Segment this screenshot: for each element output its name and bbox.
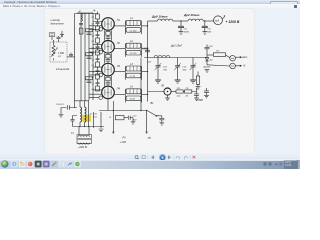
test pin Р4	[112, 111, 126, 140]
wire HT to filter	[148, 20, 158, 22]
ground	[99, 129, 104, 132]
capacitor C15 2000	[178, 21, 189, 33]
ground	[202, 32, 207, 35]
resistor R2	[96, 14, 100, 19]
wire to HT bus	[142, 93, 148, 95]
shield box (dashed)	[50, 42, 67, 62]
capacitor C2	[96, 19, 100, 26]
cathode resistor R21	[106, 54, 110, 58]
trimmer capacitor C18 150	[155, 58, 168, 80]
start orb	[1, 161, 8, 168]
ladder designator labels	[92, 17, 95, 91]
node at end of rail	[206, 57, 207, 58]
separator	[189, 155, 191, 159]
delete X icon	[193, 156, 196, 159]
wire switch to C24	[157, 116, 162, 118]
wire jack2 to diode node	[207, 65, 230, 66]
output jack Гн1	[230, 55, 236, 61]
capacitor C24	[159, 118, 164, 122]
viewer bottom control bar	[0, 153, 300, 159]
bus wire 3	[84, 13, 86, 101]
ground	[190, 79, 196, 81]
voltage stabilizer tube Л5 СГ1П	[160, 84, 171, 95]
ground	[196, 87, 201, 90]
window title bar	[0, 0, 300, 5]
cathode resistor R22	[106, 77, 110, 81]
taskbar icon: media player	[11, 161, 18, 168]
cathode capacitor C32	[106, 58, 111, 63]
capacitor C6	[96, 67, 100, 74]
bus wire 1	[74, 14, 76, 109]
ground	[175, 79, 181, 81]
taskbar icon: green app	[74, 161, 81, 168]
grid stubs tube V2	[89, 44, 102, 52]
node	[204, 20, 205, 21]
plate wire V1	[114, 25, 125, 27]
cathode link V1-V2	[104, 30, 111, 40]
tank circuit 1: inductor L1	[125, 17, 141, 34]
resistor R16	[110, 116, 129, 120]
milliammeter PA1	[214, 16, 223, 25]
resistor R3	[96, 26, 100, 31]
ground	[159, 123, 164, 126]
tube V1	[102, 18, 121, 31]
rotate ccw icon	[176, 157, 179, 160]
separator	[147, 155, 149, 159]
cathode capacitor C31	[106, 35, 111, 40]
ground	[204, 95, 209, 98]
heater choke Др5	[85, 107, 87, 122]
plate wire V2	[114, 48, 125, 50]
wire	[183, 91, 184, 93]
wire and +1200 V label	[222, 15, 240, 24]
resistor R15	[185, 88, 192, 93]
mains verticals	[94, 112, 102, 128]
capacitor C1	[57, 36, 74, 57]
trimmer capacitor C20	[190, 58, 197, 80]
cathode resistor R20	[106, 32, 110, 36]
grid cap ring V2	[99, 50, 103, 54]
tank circuit 2: inductor L2	[125, 40, 141, 57]
resistor R8	[96, 86, 100, 91]
HT bus	[147, 21, 149, 102]
taskbar	[0, 160, 300, 170]
labels Др15 С19 0,01	[90, 114, 98, 119]
tank capacitor C3	[126, 73, 141, 78]
trimmer capacitor C19 600	[174, 58, 187, 80]
capacitor C25 300	[128, 115, 137, 121]
zoom icon	[135, 156, 138, 159]
interstage capacitor C9	[87, 57, 92, 58]
yellow scan highlight	[82, 115, 91, 122]
transformer Т1	[71, 127, 92, 145]
antenna plug X1	[60, 31, 64, 38]
arrow to а	[236, 55, 249, 59]
cathode link V3-V4	[104, 76, 111, 86]
wire bus to +150V rail	[144, 49, 207, 58]
grid chain resistor R17	[79, 28, 83, 34]
connector Ш1	[49, 33, 55, 40]
choke Др3	[154, 56, 170, 58]
taskbar icon: explorer folder	[19, 161, 26, 168]
cathode drop below V4	[107, 99, 109, 111]
decoupling ladder: choke Др1	[92, 10, 98, 14]
arrow to б	[236, 64, 246, 68]
tank capacitor C2	[126, 50, 141, 55]
wire to HT bus	[142, 71, 148, 73]
resistor R5	[96, 50, 100, 55]
capacitor C5	[96, 55, 100, 62]
resistor R13	[207, 51, 230, 58]
grid stubs tube V3	[89, 67, 102, 75]
interstage RC pair 1: resistor R9	[86, 29, 93, 32]
tank circuit 3: inductor L3	[125, 63, 141, 80]
potentiometer R1 1 МΩ	[51, 40, 58, 60]
ground	[59, 115, 64, 118]
taskbar icon: purple app	[43, 161, 50, 168]
next arrow	[168, 156, 170, 160]
tube V3	[102, 63, 121, 76]
capacitor C3	[96, 31, 100, 38]
capacitor C7	[96, 79, 100, 86]
node dots on HT bus	[147, 25, 148, 95]
taskbar icon: dark app	[35, 161, 42, 168]
node dots	[79, 126, 89, 127]
capacitor C27	[71, 116, 78, 127]
ground	[194, 98, 199, 101]
capacitor C23	[194, 92, 199, 98]
node dots	[113, 110, 148, 111]
rotate cw icon	[184, 157, 187, 160]
diode VD1 Д226Б	[203, 58, 214, 69]
taskbar icon: notes	[59, 161, 66, 168]
ground	[179, 32, 184, 35]
menu / command bar	[0, 4, 300, 9]
ground	[131, 122, 136, 125]
+150V feed down	[140, 58, 142, 111]
viewer content area	[0, 9, 300, 160]
grid cap ring V1	[99, 28, 103, 32]
switch В1	[147, 102, 157, 116]
resistor R12	[196, 72, 199, 87]
node	[180, 20, 181, 21]
wire to HT bus	[142, 25, 148, 27]
interstage RC pair 2: resistor R10	[86, 53, 93, 56]
bus wire 2	[80, 13, 82, 101]
taskbar icon: red browser	[27, 161, 34, 168]
bus wire 5	[92, 13, 94, 100]
scanned schematic sheet	[45, 9, 255, 153]
actual size icon	[142, 156, 145, 159]
wire	[173, 20, 188, 22]
resistor R14	[176, 88, 183, 93]
wire lamp to R14	[171, 91, 176, 93]
ground	[155, 79, 161, 81]
wire lamp to HT bus	[148, 91, 164, 93]
resistor R7	[96, 74, 100, 79]
interstage RC pair 3: resistor R11	[86, 77, 93, 80]
test pin Р5	[146, 111, 152, 141]
bus wire 4	[88, 13, 90, 100]
grid cap ring V3	[99, 73, 103, 77]
wire to C23	[192, 88, 197, 92]
capacitor C22 С14	[205, 45, 210, 58]
grid stubs tube V4	[89, 90, 102, 98]
choke bottoms to tie	[80, 122, 85, 127]
previous arrow	[151, 156, 153, 160]
taskbar icon: gray tool	[51, 161, 58, 168]
cathode capacitor C33	[106, 81, 111, 86]
label: к входу делителя	[51, 18, 65, 25]
extra capacitor C29	[204, 88, 209, 95]
tank circuit 4: inductor L4	[125, 86, 141, 103]
filament tie wire	[73, 126, 105, 128]
interstage capacitor C8	[87, 33, 92, 34]
plate wire V3	[114, 71, 125, 73]
capacitor C26 0,01	[56, 104, 77, 114]
lamp bottom stub and ground	[165, 95, 170, 100]
heater choke Др4	[80, 107, 82, 122]
tube V4	[102, 86, 121, 99]
heater bus drops	[75, 100, 89, 127]
resistor R4	[96, 38, 100, 43]
choke Др1	[158, 19, 173, 21]
tray icons	[264, 162, 283, 165]
capacitor C17 1000	[140, 47, 150, 51]
output jack Гн2	[230, 63, 236, 69]
capacitor C4	[96, 43, 100, 50]
bottom distribution wire	[99, 110, 147, 112]
cathode link V2-V3	[104, 53, 111, 63]
wire	[203, 20, 213, 22]
plate wire V4	[114, 93, 125, 95]
value labels 1,5к 33	[177, 96, 189, 98]
bus top tie	[77, 12, 93, 14]
wire box to bus	[67, 56, 75, 58]
grid chain capacitor C30	[79, 23, 83, 24]
anode feed from L4	[112, 101, 114, 111]
capacitor C16	[202, 21, 212, 33]
tube V2	[102, 41, 121, 54]
grid cap ring V4	[99, 96, 103, 100]
taskbar icon: blue arrow app	[66, 161, 72, 168]
tank capacitor C1	[126, 28, 141, 33]
wire to HT bus	[142, 48, 148, 50]
resistor R6	[96, 62, 100, 67]
tank capacitor C4	[126, 96, 141, 101]
grid chain choke Др6	[81, 14, 82, 22]
separator	[172, 155, 174, 159]
interstage capacitor C10	[87, 81, 92, 82]
choke Др2	[188, 19, 203, 21]
ground below diode	[205, 70, 210, 73]
wire: top rail	[75, 13, 98, 15]
grid stubs tube V1	[89, 22, 102, 30]
